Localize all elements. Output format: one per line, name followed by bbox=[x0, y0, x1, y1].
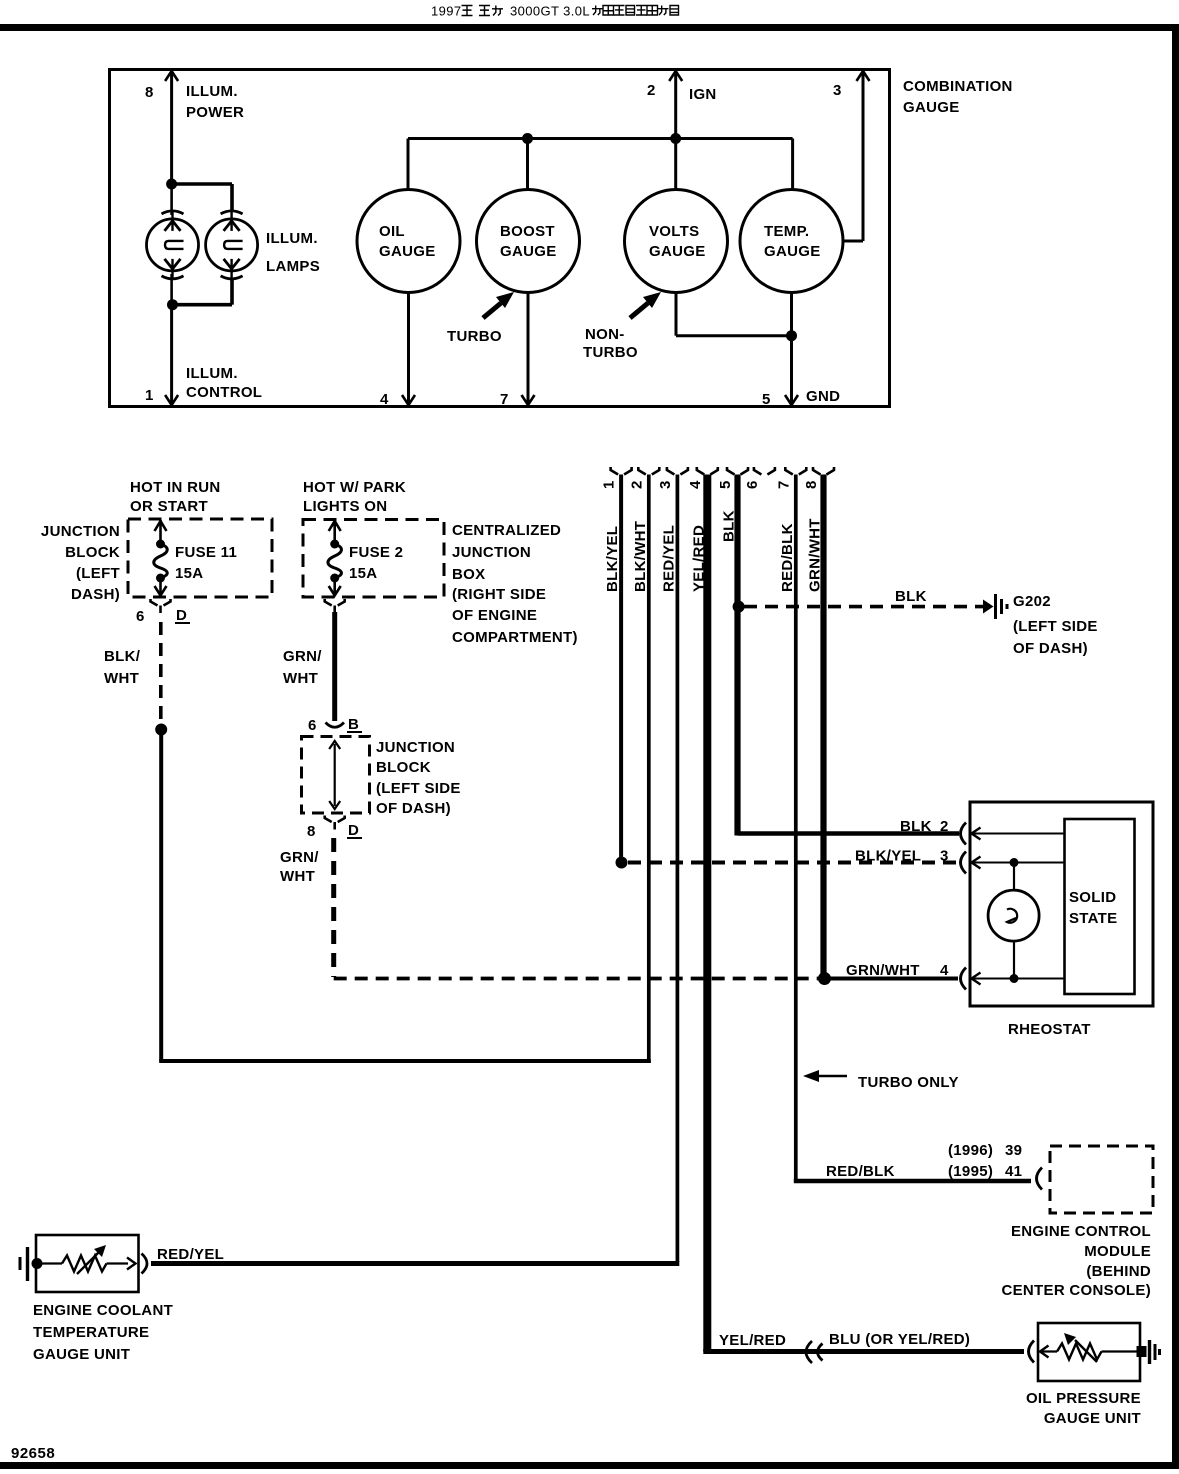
svg-text:LAMPS: LAMPS bbox=[266, 258, 320, 275]
svg-text:CENTER CONSOLE): CENTER CONSOLE) bbox=[1001, 1282, 1151, 1299]
hot in run label bbox=[130, 479, 221, 515]
svg-text:RHEOSTAT: RHEOSTAT bbox=[1008, 1021, 1091, 1038]
svg-text:GND: GND bbox=[806, 388, 840, 405]
coolant unit label bbox=[33, 1302, 173, 1363]
node: splice on BLK/YEL pin1 wire bbox=[616, 857, 628, 869]
svg-text:92658: 92658 bbox=[11, 1445, 55, 1462]
ECM pin labels bbox=[948, 1142, 1022, 1180]
svg-text:VOLTS: VOLTS bbox=[649, 223, 699, 240]
NON-TURBO callout arrow bbox=[583, 292, 661, 361]
boost gauge bbox=[477, 190, 580, 293]
connector B pin 6 bbox=[308, 716, 362, 734]
svg-text:BLK/WHT: BLK/WHT bbox=[632, 521, 649, 592]
engine control module dashed box bbox=[1050, 1146, 1153, 1213]
svg-text:B: B bbox=[348, 716, 359, 733]
connector pin 5 bbox=[717, 467, 748, 489]
svg-text:TEMP.: TEMP. bbox=[764, 223, 809, 240]
svg-text:JUNCTION: JUNCTION bbox=[41, 523, 120, 540]
inline connector YEL/RED-BLU bbox=[806, 1341, 823, 1363]
connector pin 7 bbox=[775, 467, 806, 489]
svg-text:(LEFT SIDE: (LEFT SIDE bbox=[1013, 618, 1098, 635]
temp gauge bbox=[740, 190, 843, 293]
connector pin 2 bbox=[628, 467, 659, 489]
svg-text:CENTRALIZED: CENTRALIZED bbox=[452, 522, 561, 539]
svg-text:BLOCK: BLOCK bbox=[376, 759, 431, 776]
svg-text:(LEFT SIDE: (LEFT SIDE bbox=[376, 780, 461, 797]
wire YEL/RED to oil pressure unit bbox=[703, 1332, 1024, 1352]
svg-text:ILLUM.: ILLUM. bbox=[186, 365, 238, 382]
svg-text:GAUGE: GAUGE bbox=[764, 243, 821, 260]
svg-text:FUSE 2: FUSE 2 bbox=[349, 544, 403, 561]
svg-text:WHT: WHT bbox=[283, 670, 318, 687]
solid state box bbox=[1065, 819, 1135, 994]
svg-text:1: 1 bbox=[145, 387, 154, 404]
svg-text:GAUGE: GAUGE bbox=[903, 99, 960, 116]
svg-text:OF ENGINE: OF ENGINE bbox=[452, 607, 537, 624]
svg-text:WHT: WHT bbox=[104, 670, 139, 687]
svg-text:D: D bbox=[348, 822, 359, 839]
wire BLK dashed to G202 bbox=[744, 588, 983, 607]
wire pin 7 RED/BLK bbox=[779, 475, 796, 1182]
node: bus-ign junction bbox=[670, 133, 681, 144]
TURBO callout arrow bbox=[447, 292, 514, 345]
svg-text:7: 7 bbox=[500, 391, 509, 408]
node: splice on BLK pin5 wire bbox=[733, 601, 745, 613]
node: splice on BLK/WHT bbox=[155, 724, 167, 736]
oil pressure gauge unit box bbox=[1038, 1323, 1140, 1381]
ILLUM. LAMPS label bbox=[266, 230, 320, 275]
volts gauge ground wire bbox=[676, 293, 792, 336]
svg-text:YEL/RED: YEL/RED bbox=[690, 525, 707, 592]
connector D pin 6 below fuse 11 bbox=[136, 599, 190, 625]
svg-text:LIGHTS ON: LIGHTS ON bbox=[303, 498, 387, 515]
top border bar bbox=[0, 24, 1179, 31]
svg-text:6: 6 bbox=[136, 608, 145, 625]
node: lamp top junction bbox=[166, 179, 177, 190]
junction block internal wire bbox=[329, 741, 340, 809]
wire pin 8 GRN/WHT bbox=[807, 475, 824, 978]
svg-text:15A: 15A bbox=[175, 565, 203, 582]
engine coolant temperature gauge unit box bbox=[36, 1235, 139, 1292]
svg-text:GAUGE UNIT: GAUGE UNIT bbox=[1044, 1410, 1141, 1427]
svg-text:(RIGHT SIDE: (RIGHT SIDE bbox=[452, 586, 546, 603]
svg-text:6: 6 bbox=[744, 480, 761, 489]
svg-text:2: 2 bbox=[940, 818, 949, 835]
rheostat pin 4 input bbox=[961, 968, 1065, 990]
svg-text:RED/YEL: RED/YEL bbox=[157, 1246, 224, 1263]
svg-text:8: 8 bbox=[803, 480, 820, 489]
oil pressure sender variable resistor bbox=[1040, 1333, 1140, 1362]
svg-text:39: 39 bbox=[1005, 1142, 1022, 1159]
wire GRN/WHT to rheostat pin 4 bbox=[825, 962, 959, 979]
wire BLK/WHT solid run to pin 2 bbox=[159, 730, 651, 1064]
svg-text:RED/BLK: RED/BLK bbox=[826, 1163, 895, 1180]
svg-text:2: 2 bbox=[628, 480, 645, 489]
svg-text:POWER: POWER bbox=[186, 104, 244, 121]
svg-text:BLK: BLK bbox=[721, 510, 738, 542]
fuse 11 15A bbox=[154, 520, 237, 596]
junction block (left side of dash) dashed box bbox=[302, 737, 370, 814]
svg-text:8: 8 bbox=[145, 84, 154, 101]
svg-text:YEL/RED: YEL/RED bbox=[719, 1332, 786, 1349]
svg-text:TURBO: TURBO bbox=[583, 344, 638, 361]
svg-text:BLK: BLK bbox=[895, 588, 927, 605]
svg-text:6: 6 bbox=[308, 717, 317, 734]
junction block (left dash) dashed box bbox=[128, 519, 272, 597]
svg-text:OIL: OIL bbox=[379, 223, 405, 240]
pin 5 GND wire bbox=[762, 293, 840, 409]
svg-text:STATE: STATE bbox=[1069, 910, 1117, 927]
connector at oil pressure unit bbox=[1029, 1341, 1035, 1363]
svg-text:GAUGE: GAUGE bbox=[500, 243, 557, 260]
node: lamp bottom junction bbox=[230, 278, 234, 305]
connector D pin 8 bbox=[307, 816, 362, 841]
connector pin 6 bbox=[744, 467, 775, 489]
combination gauge box bbox=[110, 70, 890, 407]
centralized junction box dashed box bbox=[303, 520, 444, 598]
volts gauge bbox=[625, 190, 728, 293]
node: GRN/WHT junction bbox=[818, 972, 831, 985]
svg-text:2: 2 bbox=[647, 82, 656, 99]
svg-text:4: 4 bbox=[940, 962, 949, 979]
svg-text:ENGINE COOLANT: ENGINE COOLANT bbox=[33, 1302, 173, 1319]
svg-text:ENGINE CONTROL: ENGINE CONTROL bbox=[1011, 1223, 1151, 1240]
ground at coolant unit bbox=[20, 1247, 43, 1281]
wire BLK/WHT dashed from junction block bbox=[104, 622, 161, 726]
svg-text:HOT IN RUN: HOT IN RUN bbox=[130, 479, 221, 496]
pin 2 IGN wire bbox=[647, 71, 717, 139]
node: bus-boost junction bbox=[522, 133, 533, 144]
svg-text:BLK/YEL: BLK/YEL bbox=[855, 848, 921, 865]
svg-text:D: D bbox=[176, 607, 187, 624]
svg-text:3: 3 bbox=[833, 82, 842, 99]
svg-text:COMPARTMENT): COMPARTMENT) bbox=[452, 629, 578, 646]
node: bulb bottom junction bbox=[1010, 974, 1019, 983]
svg-text:DASH): DASH) bbox=[71, 586, 120, 603]
svg-text:4: 4 bbox=[380, 391, 389, 408]
wire BLK pin5 to rheostat pin 2 bbox=[738, 818, 960, 835]
svg-text:COMBINATION: COMBINATION bbox=[903, 78, 1013, 95]
rheostat pin 3 input bbox=[961, 852, 1065, 874]
node: gnd junction bbox=[786, 330, 797, 341]
connector pin 8 bbox=[803, 467, 834, 489]
wire GRN/WHT dashed to rheostat bbox=[280, 838, 824, 979]
pin 3 wire bbox=[833, 71, 870, 241]
svg-text:GAUGE: GAUGE bbox=[379, 243, 436, 260]
right border bar bbox=[1172, 24, 1179, 1469]
svg-text:3000GT 3.0L: 3000GT 3.0L bbox=[510, 4, 590, 19]
TURBO ONLY arrow bbox=[803, 1070, 959, 1091]
wire pin 4 YEL/RED bbox=[690, 475, 707, 1352]
svg-text:JUNCTION: JUNCTION bbox=[452, 544, 531, 561]
svg-text:OF DASH): OF DASH) bbox=[376, 800, 451, 817]
hot w/ park lights label bbox=[303, 479, 406, 515]
svg-text:TURBO: TURBO bbox=[447, 328, 502, 345]
svg-text:WHT: WHT bbox=[280, 868, 315, 885]
wire to right lamp top bbox=[170, 182, 232, 186]
svg-text:5: 5 bbox=[762, 391, 771, 408]
wire RED/YEL to pin 3 bbox=[151, 1246, 679, 1264]
BLU label bbox=[829, 1331, 970, 1348]
svg-text:SOLID: SOLID bbox=[1069, 889, 1116, 906]
svg-text:G202: G202 bbox=[1013, 593, 1051, 610]
pin 8 ILLUM. POWER wire bbox=[145, 71, 244, 184]
ECM label bbox=[1001, 1223, 1151, 1299]
svg-text:NON-: NON- bbox=[585, 326, 625, 343]
connector at ECM bbox=[1037, 1168, 1043, 1190]
svg-text:5: 5 bbox=[717, 480, 734, 489]
ground G202 bbox=[983, 594, 1007, 619]
svg-text:GAUGE UNIT: GAUGE UNIT bbox=[33, 1346, 130, 1363]
wire BLK/YEL dashed to rheostat pin 3 bbox=[628, 848, 958, 865]
wire: gauge supply bus bbox=[408, 139, 793, 192]
svg-text:BLK/: BLK/ bbox=[104, 648, 141, 665]
connector pin 3 bbox=[657, 467, 688, 489]
svg-text:GRN/WHT: GRN/WHT bbox=[807, 518, 824, 592]
svg-text:TURBO ONLY: TURBO ONLY bbox=[858, 1074, 959, 1091]
svg-text:IGN: IGN bbox=[689, 86, 717, 103]
svg-text:FUSE 11: FUSE 11 bbox=[175, 544, 237, 561]
svg-text:GAUGE: GAUGE bbox=[649, 243, 706, 260]
svg-text:15A: 15A bbox=[349, 565, 377, 582]
pin 1 ILLUM. CONTROL wire bbox=[145, 305, 262, 405]
coolant sender variable resistor bbox=[37, 1245, 136, 1274]
RHEOSTAT label bbox=[1008, 1021, 1091, 1038]
connector pin 4 bbox=[687, 467, 718, 489]
wire pin 2 BLK/WHT bbox=[632, 475, 649, 1062]
svg-text:MODULE: MODULE bbox=[1084, 1243, 1151, 1260]
connector pin 1 bbox=[601, 467, 632, 489]
svg-text:4: 4 bbox=[687, 480, 704, 489]
svg-text:CONTROL: CONTROL bbox=[186, 384, 262, 401]
rheostat pin 2 input bbox=[961, 823, 1065, 845]
wire pin 1 BLK/YEL bbox=[604, 475, 621, 862]
pin 7 wire bbox=[500, 293, 535, 409]
svg-text:TEMPERATURE: TEMPERATURE bbox=[33, 1324, 149, 1341]
svg-text:(LEFT: (LEFT bbox=[76, 565, 120, 582]
wire RED/BLK to ECM bbox=[794, 1163, 1031, 1181]
svg-text:BLK: BLK bbox=[900, 818, 932, 835]
wire pin 3 RED/YEL bbox=[660, 475, 677, 1263]
svg-text:OF DASH): OF DASH) bbox=[1013, 640, 1088, 657]
svg-text:1: 1 bbox=[601, 480, 618, 489]
svg-text:RED/BLK: RED/BLK bbox=[779, 523, 796, 592]
node: bulb top junction bbox=[1010, 858, 1019, 867]
svg-text:41: 41 bbox=[1005, 1163, 1022, 1180]
svg-text:3: 3 bbox=[940, 848, 949, 865]
svg-text:BLK/YEL: BLK/YEL bbox=[604, 526, 621, 592]
svg-text:1997: 1997 bbox=[431, 4, 462, 19]
svg-text:GRN/WHT: GRN/WHT bbox=[846, 962, 920, 979]
svg-text:ILLUM.: ILLUM. bbox=[266, 230, 318, 247]
svg-text:(1996): (1996) bbox=[948, 1142, 993, 1159]
svg-text:BLU (OR YEL/RED): BLU (OR YEL/RED) bbox=[829, 1331, 970, 1348]
G202 label bbox=[1013, 593, 1098, 657]
oil pressure unit label bbox=[1026, 1390, 1141, 1427]
wire pin 5 BLK bbox=[721, 475, 738, 836]
title: 1997nian Mitsubishi 3000GT 3.0L aux gauge panel diagram bbox=[431, 4, 679, 19]
svg-text:ILLUM.: ILLUM. bbox=[186, 83, 238, 100]
svg-text:7: 7 bbox=[775, 480, 792, 489]
svg-text:3: 3 bbox=[657, 480, 674, 489]
svg-text:GRN/: GRN/ bbox=[280, 849, 319, 866]
svg-text:GRN/: GRN/ bbox=[283, 648, 322, 665]
svg-text:(1995): (1995) bbox=[948, 1163, 993, 1180]
illum lamp left bbox=[147, 184, 199, 305]
svg-text:OR START: OR START bbox=[130, 498, 208, 515]
rheostat bulb bbox=[988, 863, 1039, 979]
svg-text:BOX: BOX bbox=[452, 566, 485, 583]
svg-text:OIL PRESSURE: OIL PRESSURE bbox=[1026, 1390, 1141, 1407]
svg-text:RED/YEL: RED/YEL bbox=[660, 525, 677, 592]
bottom border bar bbox=[0, 1462, 1179, 1469]
diagram number 92658 bbox=[11, 1445, 55, 1462]
svg-text:BOOST: BOOST bbox=[500, 223, 555, 240]
illum lamp right bbox=[206, 211, 258, 279]
svg-text:8: 8 bbox=[307, 823, 316, 840]
connector below fuse 2 bbox=[325, 599, 345, 613]
svg-text:JUNCTION: JUNCTION bbox=[376, 739, 455, 756]
svg-text:HOT W/ PARK: HOT W/ PARK bbox=[303, 479, 406, 496]
ground at oil pressure unit bbox=[1137, 1340, 1160, 1364]
svg-text:BLOCK: BLOCK bbox=[65, 544, 120, 561]
rheostat box bbox=[970, 802, 1153, 1006]
pin 4 wire bbox=[380, 293, 415, 409]
svg-text:(BEHIND: (BEHIND bbox=[1086, 1263, 1151, 1280]
oil gauge bbox=[357, 190, 460, 293]
wire GRN/WHT fuse2 to junction block B bbox=[283, 612, 335, 721]
connector at coolant unit bbox=[142, 1254, 148, 1274]
fuse 2 15A bbox=[328, 520, 403, 596]
